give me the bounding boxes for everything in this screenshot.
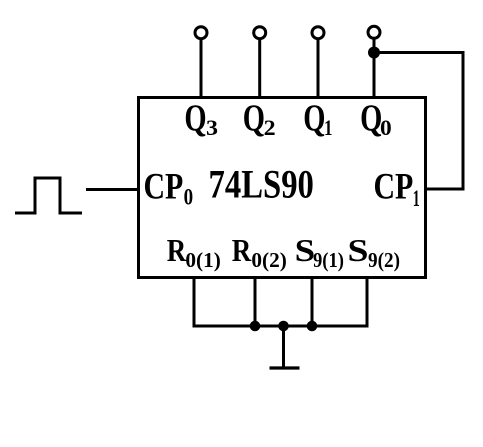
svg-text:0(2): 0(2) <box>251 248 287 272</box>
svg-text:R: R <box>232 232 252 268</box>
wire S9(2) pin <box>366 278 369 327</box>
svg-text:74LS90: 74LS90 <box>209 162 314 207</box>
wire S9(1) pin <box>311 278 314 327</box>
junction dot at S9(1) <box>307 321 318 332</box>
svg-text:Q: Q <box>303 97 325 139</box>
svg-text:1: 1 <box>413 186 420 211</box>
svg-text:Q: Q <box>360 97 382 139</box>
svg-text:CP: CP <box>144 166 184 207</box>
svg-text:2: 2 <box>264 115 276 140</box>
svg-text:Q: Q <box>243 97 265 139</box>
ground symbol <box>270 366 300 369</box>
svg-text:3: 3 <box>206 115 218 140</box>
wire R0(2) pin <box>254 278 257 327</box>
svg-text:CP: CP <box>374 166 414 207</box>
svg-text:0: 0 <box>184 185 194 210</box>
junction dot on Q0 wire <box>368 47 380 59</box>
svg-text:0: 0 <box>380 115 392 140</box>
wire clock input to CP0 <box>86 188 138 191</box>
svg-text:Q: Q <box>184 97 206 139</box>
wire bottom bus <box>193 325 369 328</box>
wire ground stub <box>282 326 285 368</box>
terminal Q1 (open circle) <box>312 27 324 39</box>
wire feedback Q0 to CP1 <box>374 53 463 190</box>
wire Q0 pin <box>373 39 376 97</box>
terminal Q2 (open circle) <box>254 27 266 39</box>
svg-text:9(2): 9(2) <box>368 248 400 272</box>
wire R0(1) pin <box>193 278 196 327</box>
svg-text:S: S <box>348 232 369 268</box>
wire Q2 pin <box>258 40 261 97</box>
svg-text:1: 1 <box>324 115 333 140</box>
terminal Q0 (open circle) <box>368 26 380 38</box>
svg-text:R: R <box>167 232 187 268</box>
svg-text:9(1): 9(1) <box>313 248 344 272</box>
wire Q3 pin <box>200 40 203 97</box>
IC body U1 (74LS90 outline) <box>139 98 426 278</box>
wire Q1 pin <box>317 40 320 97</box>
junction dot at ground tap <box>278 321 289 332</box>
svg-text:0(1): 0(1) <box>185 248 221 272</box>
pulse source symbol <box>15 178 82 213</box>
junction dot at R0(2) <box>250 321 261 332</box>
terminal Q3 (open circle) <box>195 27 207 39</box>
